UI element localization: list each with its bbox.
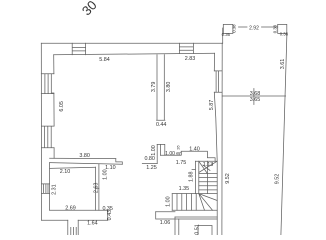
svg-text:1.00 ел: 1.00 ел xyxy=(165,151,182,157)
wall: right inner xyxy=(214,53,217,235)
stair: middle vertical xyxy=(207,161,209,193)
porch dim line 2.92 xyxy=(239,26,278,28)
svg-text:2.92: 2.92 xyxy=(249,26,259,32)
svg-text:30: 30 xyxy=(79,0,100,18)
north orientation mark "30" rotated xyxy=(79,0,100,18)
wall: main top inner xyxy=(54,53,215,55)
wall: left inner xyxy=(53,55,55,158)
svg-text:2.69: 2.69 xyxy=(65,206,76,212)
window W2 top wall xyxy=(179,43,193,53)
wall: bottom outer left xyxy=(42,219,68,221)
svg-text:0.38: 0.38 xyxy=(273,24,278,33)
wall: room1 bottom (3.80 wall) top face xyxy=(50,157,116,159)
svg-text:5.87: 5.87 xyxy=(209,100,215,111)
stair: enclosure left lines xyxy=(195,161,198,193)
svg-text:3.80: 3.80 xyxy=(166,82,172,93)
svg-text:0.51: 0.51 xyxy=(194,224,200,235)
svg-text:1.35: 1.35 xyxy=(179,186,190,192)
extension line above right corner xyxy=(222,28,224,43)
wall: right outer xyxy=(221,43,223,235)
stair: top cell X diagonals xyxy=(199,161,217,173)
svg-text:9.52: 9.52 xyxy=(274,174,280,185)
interior wall I1 (0.44) xyxy=(157,55,165,121)
svg-text:2.31: 2.31 xyxy=(51,184,57,195)
window W5 left wall small xyxy=(42,184,50,194)
wall: hall 0.80 segment xyxy=(142,163,157,165)
bathroom right wall double xyxy=(96,164,99,210)
svg-text:5.84: 5.84 xyxy=(99,57,110,63)
wall: bottom outer right of door xyxy=(78,219,108,221)
svg-text:1.88: 1.88 xyxy=(188,172,194,183)
dim tick 3.68 xyxy=(253,89,255,105)
svg-text:1.06: 1.06 xyxy=(160,220,171,226)
window W6 right wall xyxy=(214,71,222,92)
wall: left inner south (bathroom left edge) xyxy=(49,163,51,211)
porch post P2 xyxy=(278,24,287,33)
svg-text:2.83: 2.83 xyxy=(185,56,196,62)
bottom door jambs xyxy=(68,220,78,235)
svg-text:6.05: 6.05 xyxy=(59,101,65,112)
window W1 top wall xyxy=(72,43,85,54)
svg-text:1.13: 1.13 xyxy=(203,162,214,168)
svg-text:2.63: 2.63 xyxy=(93,183,99,194)
svg-text:0.38: 0.38 xyxy=(280,32,289,37)
bathroom bottom line xyxy=(50,209,108,211)
wall: main top outer xyxy=(41,42,222,44)
wall: hall SW step (1.06) xyxy=(156,212,218,219)
svg-text:3.61: 3.61 xyxy=(280,59,286,70)
svg-text:0.44: 0.44 xyxy=(156,122,167,128)
svg-text:0.38: 0.38 xyxy=(232,24,237,33)
svg-text:1.00: 1.00 xyxy=(151,145,157,156)
window W4 left wall xyxy=(41,126,54,148)
svg-text:1.40: 1.40 xyxy=(189,147,200,153)
porch right boundary xyxy=(281,34,287,235)
window W3 left wall xyxy=(41,74,54,94)
dimension texts xyxy=(51,24,288,235)
boiler square in bottom-right room xyxy=(198,226,212,237)
svg-text:0.80: 0.80 xyxy=(144,156,155,162)
bathroom top line xyxy=(50,167,96,168)
svg-text:1.00: 1.00 xyxy=(165,196,171,207)
svg-text:0.36: 0.36 xyxy=(222,32,231,37)
stair: upper run treads xyxy=(199,174,217,190)
wall: room1 bottom end notch xyxy=(116,159,123,165)
porch post P1 xyxy=(223,24,233,33)
wall: left outer xyxy=(40,43,42,220)
stair: dim tick 1.88 xyxy=(192,168,195,170)
svg-text:1.75: 1.75 xyxy=(176,160,187,166)
svg-text:3.65: 3.65 xyxy=(250,97,261,103)
porch dim line 3.68 xyxy=(222,95,285,97)
stair: top edge xyxy=(195,160,217,162)
svg-text:26: 26 xyxy=(176,145,181,150)
svg-text:9.52: 9.52 xyxy=(225,173,231,184)
bottom door hatch xyxy=(71,227,76,235)
dim tick left inner wall xyxy=(52,92,54,94)
svg-text:2.10: 2.10 xyxy=(60,169,71,175)
stair: fan diagonals xyxy=(199,194,217,211)
stair: lower run left edge and treads xyxy=(172,194,196,211)
svg-text:3.79: 3.79 xyxy=(151,82,157,93)
svg-text:1.64: 1.64 xyxy=(87,220,98,226)
bathroom door tick xyxy=(96,187,99,189)
stair: lower run bottom xyxy=(172,209,217,211)
svg-text:3.80: 3.80 xyxy=(79,153,90,159)
wall: bottom-right room top second face xyxy=(175,216,217,218)
wall: bottom-right room left xyxy=(175,217,179,235)
svg-text:1.25: 1.25 xyxy=(146,165,157,171)
svg-text:0.43: 0.43 xyxy=(107,210,113,221)
wall: hall south line xyxy=(156,211,175,213)
wall: hall top cap xyxy=(157,144,165,155)
wall: 0.43 step xyxy=(107,210,109,220)
wall: room1 bottom (3.80 wall) bottom face xyxy=(50,163,123,165)
wall: hall north zigzag xyxy=(160,151,215,161)
wall: hall vertical V2 (1.00) xyxy=(157,144,160,163)
stair: fan top line xyxy=(172,193,217,195)
svg-text:1.00: 1.00 xyxy=(103,169,109,180)
